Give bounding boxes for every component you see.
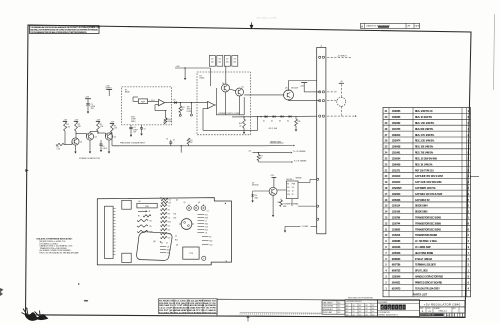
pcb extra parts col	[160, 246, 170, 254]
scan edge artifact right	[494, 14, 495, 90]
pcb center parts col	[161, 204, 171, 239]
ground C4	[130, 134, 132, 137]
wire Q1 collector to Q2 base	[75, 133, 77, 134]
wire bus row 91.9	[304, 91, 320, 93]
microfilm tick strip	[240, 313, 322, 315]
diode D4	[289, 115, 292, 118]
wire sense gnd	[263, 145, 293, 147]
svg-text:C4: C4	[168, 217, 170, 219]
wire feedback rise to diode row	[257, 117, 259, 131]
svg-text:Q9: Q9	[252, 183, 254, 185]
svg-text:POINT: POINT	[187, 111, 192, 113]
transistor Q8	[284, 90, 294, 100]
svg-text:Q5: Q5	[184, 202, 186, 204]
svg-text:SPLIT LUGS: SPLIT LUGS	[415, 271, 428, 273]
svg-text:D1: D1	[168, 225, 170, 227]
pcb right labels 2	[202, 236, 212, 246]
wire T1 gnd	[285, 225, 301, 227]
svg-text:HANDLE EXTRACTOR RED: HANDLE EXTRACTOR RED	[415, 276, 443, 279]
svg-text:N8230: N8230	[125, 92, 130, 94]
wire TP2 drop	[190, 103, 192, 114]
resistor R17	[258, 152, 259, 153]
resistor R5	[97, 122, 100, 132]
svg-text:1205349: 1205349	[392, 276, 401, 279]
external transistor dashed circle	[337, 97, 346, 106]
svg-text:SIZE: SIZE	[420, 308, 423, 310]
svg-text:R15: R15	[168, 233, 171, 235]
svg-text:CAP 680PF 100V 5%: CAP 680PF 100V 5%	[415, 187, 436, 190]
wire trimmer	[165, 111, 167, 118]
svg-text:R20: R20	[205, 223, 208, 225]
transistor Q9	[269, 187, 277, 195]
node output junction A	[180, 102, 181, 103]
svg-text:DIODE D662: DIODE D662	[415, 212, 428, 214]
svg-text:Q5: Q5	[242, 87, 244, 89]
svg-text:D17: D17	[372, 314, 375, 316]
rail +15V A	[63, 121, 67, 123]
svg-text:DEC3009: DEC3009	[291, 87, 298, 89]
svg-text:g: g	[389, 306, 391, 310]
svg-text:1105114: 1105114	[392, 205, 401, 208]
svg-text:Q6: Q6	[198, 202, 200, 204]
svg-text:10023525: 10023525	[392, 187, 402, 190]
terminal pair row D	[319, 115, 321, 117]
svg-text:DEC380 +: DEC380 +	[286, 179, 293, 181]
transistor can Q6 pcb	[201, 206, 206, 211]
transistor can Q5 pcb	[194, 206, 199, 211]
transistor Q1	[72, 138, 79, 145]
svg-text:D3: D3	[279, 120, 281, 122]
svg-text:E3: E3	[287, 183, 289, 185]
svg-text:1105100: 1105100	[392, 211, 401, 214]
svg-text:R15: R15	[298, 121, 301, 123]
svg-text:R4: R4	[150, 220, 152, 222]
svg-text:CAP 39UF 10V 10% S.TANT: CAP 39UF 10V 10% S.TANT	[415, 193, 443, 196]
svg-text:C1: C1	[168, 205, 170, 207]
svg-text:1300310: 1300310	[392, 134, 401, 137]
svg-text:662: 662	[211, 62, 214, 64]
ground C5	[141, 133, 143, 136]
heat sink blob	[137, 232, 172, 261]
svg-text:C10: C10	[287, 191, 290, 193]
svg-text:C9: C9	[205, 232, 207, 234]
edge connector J1	[317, 48, 326, 234]
wire R1 to Q1	[64, 131, 66, 145]
svg-text:A: A	[361, 25, 363, 28]
power resistor bar	[137, 203, 157, 208]
svg-text:1103790: 1103790	[392, 216, 401, 219]
pcb tab pin marks	[225, 203, 226, 204]
svg-text:DEC6534: DEC6534	[252, 185, 259, 187]
digital logo	[381, 305, 406, 310]
svg-text:CHK R.JONES: CHK R.JONES	[323, 306, 333, 308]
op-amp E2A	[208, 101, 215, 108]
resistor R11 drop	[179, 103, 181, 106]
svg-text:D17: D17	[346, 305, 349, 307]
svg-text:C5: C5	[144, 129, 146, 131]
diode pack D7	[224, 56, 230, 67]
svg-text:1909686: 1909686	[392, 240, 401, 243]
paper speck A	[78, 283, 80, 285]
wire Q2 collector join	[89, 132, 91, 133]
svg-text:.01: .01	[173, 140, 175, 142]
svg-text:C4: C4	[133, 127, 135, 129]
handle ejector top	[122, 200, 131, 209]
rail +15V D	[110, 123, 114, 125]
test point TP2	[190, 114, 192, 116]
svg-text:TERMINAL SOLDER: TERMINAL SOLDER	[415, 264, 436, 267]
svg-text:1005306: 1005306	[392, 199, 401, 202]
svg-text:C7: C7	[205, 220, 207, 222]
svg-text:9006633: 9006633	[392, 258, 401, 261]
svg-text:CAP .01UF 100V 20% DISC: CAP .01UF 100V 20% DISC	[415, 181, 442, 184]
wire Q8 collector	[288, 81, 290, 91]
svg-text:G840-0-1: G840-0-1	[438, 311, 447, 313]
svg-text:Q2: Q2	[95, 137, 97, 139]
connector finger ticks	[113, 209, 116, 255]
svg-text:OK: OK	[292, 187, 294, 189]
resistor R12 on input	[188, 144, 190, 146]
svg-text:I.C. 723 PREC. V. REG.: I.C. 723 PREC. V. REG.	[415, 241, 438, 243]
svg-text:TRANSISTOR DEC 6534D: TRANSISTOR DEC 6534D	[415, 228, 441, 231]
wire Q3 output	[111, 133, 113, 146]
wire diode packs to E2	[225, 66, 227, 84]
svg-text:DISTRIBUTION LIST: DISTRIBUTION LIST	[347, 301, 362, 303]
svg-text:1302462: 1302462	[392, 122, 401, 125]
svg-text:9-5: 9-5	[338, 306, 340, 308]
svg-text:9-6: 9-6	[338, 309, 340, 311]
svg-text:R20: R20	[287, 194, 290, 196]
test point TP1	[179, 114, 181, 116]
wire Q1 base	[64, 144, 72, 146]
svg-text:Q3: Q3	[114, 137, 116, 139]
node input junction	[181, 145, 182, 146]
wire rail to Q9	[273, 178, 275, 188]
svg-text:D8: D8	[234, 59, 236, 61]
rail +15V Q9	[272, 177, 277, 179]
wire feedback bottom run	[203, 129, 258, 131]
svg-text:1302474: 1302474	[392, 140, 401, 143]
svg-text:9-4: 9-4	[338, 302, 340, 304]
svg-text:R16: R16	[239, 123, 242, 125]
svg-text:UNIT: UNIT	[131, 117, 135, 119]
svg-text:R7: R7	[168, 209, 170, 211]
diode D2	[273, 115, 276, 118]
svg-text:C3: C3	[207, 211, 209, 213]
svg-text:D3: D3	[168, 229, 170, 231]
svg-text:TRANSISTOR 2N4398: TRANSISTOR 2N4398	[415, 234, 438, 237]
svg-text:1K: 1K	[292, 191, 294, 193]
wire precision voltage input	[114, 145, 263, 147]
scan smudge left edge	[0, 288, 4, 296]
svg-text:RES. 1K 1/4W 5%: RES. 1K 1/4W 5%	[415, 163, 433, 166]
svg-text:1105744: 1105744	[392, 222, 401, 225]
parts list pointer arrow	[472, 176, 479, 178]
svg-text:+5V INPUT: +5V INPUT	[337, 55, 347, 57]
resistor R2	[75, 122, 78, 132]
svg-text:DIODE D664: DIODE D664	[415, 205, 428, 208]
svg-text:1300365: 1300365	[392, 116, 401, 119]
svg-text:662: 662	[219, 62, 222, 64]
svg-text:FOR THE MANUFACTURE OR SALE OF: FOR THE MANUFACTURE OR SALE OF ITEMS WIT…	[30, 31, 87, 34]
module E2 dashed box	[197, 72, 251, 135]
svg-text:t: t	[396, 306, 397, 310]
svg-text:SENSE +: SENSE +	[296, 177, 303, 179]
svg-text:E2: E2	[200, 75, 202, 77]
module E1 dashed box	[122, 87, 172, 125]
handle ejector bottom	[122, 253, 131, 262]
svg-text:+5V: +5V	[340, 81, 343, 83]
svg-text:D2: D2	[271, 120, 273, 122]
terminal row E	[317, 178, 319, 180]
wire E2 output to Q8	[244, 94, 284, 96]
capacitor C5	[141, 125, 143, 128]
svg-text:D17: D17	[346, 308, 349, 310]
svg-text:C10: C10	[209, 244, 212, 246]
svg-text:5004321: 5004321	[392, 281, 401, 284]
ground C1	[87, 111, 89, 114]
op-amp E1A	[159, 99, 165, 105]
rail bar external	[339, 82, 344, 84]
svg-text:9006732: 9006732	[392, 270, 401, 273]
svg-text:RES. 1.5K 1/4W 5%: RES. 1.5K 1/4W 5%	[415, 122, 435, 125]
svg-text:1001610: 1001610	[392, 175, 401, 178]
resistor R16	[243, 116, 244, 117]
wire rail to E1	[108, 90, 110, 97]
svg-text:1K: 1K	[260, 158, 262, 160]
ground T1	[284, 226, 286, 229]
svg-text:POT 100 TYPE 110: POT 100 TYPE 110	[415, 170, 434, 172]
wire +5V sense	[253, 152, 291, 154]
pcb top labels	[139, 196, 209, 212]
svg-text:310: 310	[287, 187, 290, 189]
svg-text:A-PL-G840-0-1 +5V REG: A-PL-G840-0-1 +5V REG	[257, 17, 278, 20]
svg-text:RES. 1/4W 5% CC: RES. 1/4W 5% CC	[415, 110, 433, 113]
wire output bus row	[232, 115, 317, 118]
svg-text:TL +5V SENSE: TL +5V SENSE	[293, 151, 306, 153]
ground Q3	[108, 140, 110, 150]
svg-text:D4: D4	[287, 120, 289, 122]
resistor R21	[280, 199, 282, 200]
svg-text:D17: D17	[366, 308, 369, 310]
svg-text:RES. 750 1/4W 5%: RES. 750 1/4W 5%	[415, 152, 434, 155]
svg-text:DIST. CONTROL NO.: DIST. CONTROL NO.	[420, 315, 435, 317]
wire ctl sense	[258, 161, 260, 163]
svg-text:662: 662	[234, 62, 237, 64]
terminal row F	[317, 205, 319, 207]
svg-text:Q4: Q4	[222, 83, 224, 85]
wire Q5 emitter	[239, 96, 241, 115]
svg-text:1002343: 1002343	[392, 193, 401, 196]
transistor Q5	[236, 88, 244, 96]
svg-text:UNREG: UNREG	[106, 88, 113, 90]
transistor can Q4 pcb	[187, 206, 192, 211]
notes block	[37, 237, 80, 254]
terminal row G	[317, 218, 319, 220]
svg-text:Q1: Q1	[80, 142, 82, 144]
rail +20V Q8	[301, 82, 307, 84]
svg-text:HEAT SINK 6006B: HEAT SINK 6006B	[415, 252, 434, 255]
resistor R9	[111, 124, 114, 133]
dash line circle bottom	[340, 106, 342, 116]
svg-text:D664: D664	[254, 197, 258, 199]
rail +20V D	[106, 89, 112, 91]
pcb resistor row 2	[137, 225, 148, 227]
svg-text:Q8: Q8	[285, 87, 287, 89]
svg-text:D17: D17	[353, 314, 356, 316]
svg-text:1103805: 1103805	[392, 228, 401, 231]
node output junction B	[191, 102, 192, 103]
svg-text:D17: D17	[359, 308, 362, 310]
svg-text:1310004: 1310004	[392, 157, 401, 160]
ground Q2	[89, 140, 91, 150]
svg-text:2K: 2K	[292, 194, 294, 196]
distribution grid	[345, 300, 378, 317]
svg-text:1910026: 1910026	[392, 246, 401, 249]
svg-text:Q9: Q9	[176, 245, 178, 247]
svg-text:C2: C2	[169, 199, 171, 201]
mounting hole pcb	[202, 256, 206, 260]
svg-text:R12: R12	[190, 140, 193, 142]
parts list table	[383, 108, 471, 297]
svg-text:CURRENT LIMIT & COMP: CURRENT LIMIT & COMP	[218, 113, 240, 115]
svg-text:D1: D1	[263, 120, 265, 122]
pcb right parts col	[198, 214, 208, 234]
svg-text:1301745: 1301745	[392, 128, 401, 131]
svg-text:Q4: Q4	[176, 199, 178, 201]
svg-text:R21: R21	[278, 202, 281, 204]
logo cell frame	[378, 300, 420, 317]
svg-text:LM301: LM301	[200, 78, 205, 80]
svg-text:R11: R11	[174, 214, 177, 216]
dash line row C	[327, 100, 337, 102]
rail +20V C1	[85, 98, 91, 100]
pcb resistor row 3	[137, 230, 148, 232]
wire E3 down	[291, 199, 293, 207]
wire +20V tap	[175, 67, 194, 69]
svg-text:PARTS LIST: PARTS LIST	[413, 294, 428, 297]
svg-text:D17: D17	[353, 311, 356, 313]
paper speck B	[84, 300, 88, 302]
svg-text:D17: D17	[366, 305, 369, 307]
svg-text:RES. 100 1/4W 5%: RES. 100 1/4W 5%	[415, 146, 434, 149]
title block strip	[217, 299, 465, 317]
svg-text:SHEET 1 OF 1: SHEET 1 OF 1	[446, 315, 455, 317]
svg-text:1205348: 1205348	[392, 252, 401, 255]
ground D10	[252, 200, 254, 203]
wire REF input left	[133, 100, 138, 102]
svg-text:CAP 6.8UF 35V 10% S.TANT: CAP 6.8UF 35V 10% S.TANT	[415, 175, 444, 178]
diode D9	[174, 101, 177, 104]
transistor Q4	[222, 84, 230, 92]
current limit inner box	[216, 88, 244, 115]
resistor R3	[56, 143, 64, 145]
svg-text:TP2: TP2	[187, 106, 190, 108]
wire Q9 to E3	[277, 189, 286, 191]
svg-text:TEST: TEST	[187, 109, 191, 111]
rail +15V B	[74, 121, 78, 123]
resistor R15	[265, 116, 266, 117]
svg-text:1311371: 1311371	[392, 169, 401, 172]
terminal pair row B	[319, 91, 321, 93]
svg-text:R14: R14	[175, 240, 178, 242]
dash line row B	[327, 91, 338, 93]
corner scribble	[25, 312, 49, 321]
svg-text:D5: D5	[161, 243, 163, 245]
reference box REF	[138, 99, 147, 104]
svg-text:.02: .02	[239, 125, 241, 127]
svg-text:D17: D17	[353, 308, 356, 310]
svg-text:R10: R10	[168, 221, 171, 223]
svg-text:1105313: 1105313	[392, 234, 401, 237]
svg-text:1300365: 1300365	[392, 110, 401, 113]
svg-text:1301401: 1301401	[392, 152, 401, 155]
svg-text:C6: C6	[168, 237, 170, 239]
wire into E2 top	[194, 67, 210, 69]
svg-text:a: a	[399, 306, 401, 310]
svg-text:E2 LM301 TP1,TP2 J1 G840 ETCH: E2 LM301 TP1,TP2 J1 G840 ETCH BOARD ASSY…	[159, 311, 216, 314]
svg-text:9-8: 9-8	[338, 312, 340, 314]
svg-text:662: 662	[226, 62, 229, 64]
fold arrow mark	[247, 316, 249, 322]
svg-text:E1: E1	[125, 89, 127, 91]
dash line circle top rail	[340, 84, 342, 97]
svg-text:D5: D5	[211, 59, 213, 61]
capacitor C2	[100, 140, 102, 144]
rail +15V C	[96, 121, 100, 123]
wire E1 output	[165, 102, 208, 104]
terminal pair row A	[319, 56, 321, 58]
svg-text:D17: D17	[353, 305, 356, 307]
diode D3	[281, 115, 284, 118]
svg-text:D10: D10	[205, 226, 208, 228]
dash line +5V input	[327, 56, 352, 58]
svg-text:TL CTL SENSE: TL CTL SENSE	[294, 160, 308, 162]
svg-text:R9: R9	[168, 213, 170, 215]
wire Q9 emitter ground	[272, 195, 274, 214]
svg-text:RES. 10 1/4W 5%: RES. 10 1/4W 5%	[415, 116, 433, 119]
wire R5 to Q2 collector Q3 base	[97, 131, 99, 133]
pcb resistor row 1	[137, 219, 148, 221]
capacitor C6 on input	[170, 143, 172, 146]
wire Q3 collector to R9	[111, 132, 113, 135]
edge connector block	[105, 206, 114, 258]
centering arrow top border	[250, 22, 253, 28]
svg-text:R22: R22	[209, 240, 212, 242]
svg-text:PRINTED CIRCUIT BOARD: PRINTED CIRCUIT BOARD	[415, 281, 442, 284]
svg-text:PWR: PWR	[292, 183, 295, 185]
wire E3 sense row	[298, 182, 310, 184]
pcb misc labels	[161, 214, 178, 247]
svg-text:D17: D17	[366, 314, 369, 316]
pcb board outline	[97, 198, 231, 265]
svg-text:D6: D6	[219, 59, 221, 61]
diode D1	[265, 115, 268, 118]
capacitor C1	[87, 99, 89, 104]
svg-text:d: d	[381, 306, 383, 310]
svg-text:R17: R17	[260, 156, 263, 158]
svg-text:R5: R5	[150, 226, 152, 228]
svg-text:FREQ: FREQ	[131, 121, 136, 123]
dist sheet row	[420, 313, 466, 317]
svg-text:6.8UF: 6.8UF	[133, 129, 137, 131]
svg-text:R1: R1	[138, 216, 140, 218]
svg-text:POWER ON DETECTOR: POWER ON DETECTOR	[79, 158, 101, 160]
svg-text:D17: D17	[346, 311, 349, 313]
svg-text:.01UF: .01UF	[102, 148, 107, 150]
svg-text:9107673: 9107673	[392, 287, 401, 290]
svg-text:C8: C8	[167, 246, 169, 248]
